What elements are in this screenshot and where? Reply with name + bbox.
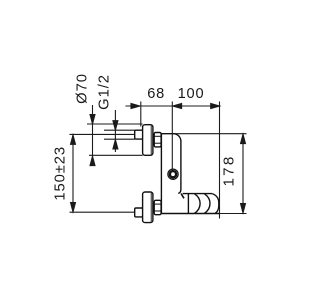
measure line Ø70 top — [87, 123, 143, 125]
arrow 178 top — [240, 134, 245, 144]
body-to-cartridge chamfer stub — [181, 194, 184, 199]
extension line 150 bottom (lower port centreline) — [70, 211, 135, 213]
lower union nut — [154, 200, 161, 214]
arrow 178 bottom — [240, 204, 245, 214]
cartridge dome seam 1 — [195, 194, 201, 214]
extension line 150 top (upper port centreline) — [70, 133, 135, 135]
upper nut facet bottom — [154, 142, 161, 144]
upper nut facet top — [154, 135, 161, 137]
measure line G1/2 bottom — [104, 138, 135, 140]
arrow Ø70 bottom — [90, 156, 95, 166]
extension line 178 top (body top edge extended) — [173, 133, 247, 135]
dimension line 68/100 — [126, 105, 221, 107]
upper wall flange Ø70 — [143, 125, 153, 156]
extension line at x=172.3 (body axis, to screw) — [171, 102, 173, 169]
svg-text:G1/2: G1/2 — [97, 74, 113, 110]
arrow 68 right / 100 left — [172, 103, 181, 108]
upper flange edge line — [150, 126, 152, 155]
svg-text:Ø70: Ø70 — [75, 73, 91, 104]
svg-text:150±23: 150±23 — [53, 146, 69, 201]
faucet body outline — [161, 134, 181, 214]
upper union nut — [154, 133, 161, 147]
extension line at x=219.5 — [219, 102, 221, 219]
dimension line 178 — [242, 134, 244, 214]
handle screw — [168, 169, 178, 179]
measure line G1/2 top — [104, 129, 135, 131]
arrow 150 bottom — [70, 202, 75, 212]
lower nut facet bottom — [154, 210, 161, 212]
extension line at x=172.3 inside body (down to screw) — [171, 134, 173, 169]
cartridge end cap — [212, 194, 219, 214]
extension line at x=140.8 — [140, 102, 142, 127]
lower wall flange Ø70 — [143, 192, 153, 223]
fixture bottom edge — [161, 213, 219, 215]
svg-text:100: 100 — [178, 86, 205, 102]
arrow 100 right — [211, 103, 220, 108]
arrow Ø70 top — [90, 114, 95, 124]
extension line 178 bottom (fixture bottom extended) — [220, 213, 247, 215]
lower nipple G1/2 — [135, 208, 143, 217]
measure line Ø70 bottom — [89, 154, 143, 156]
leader line Ø70 — [92, 105, 94, 166]
cartridge left seam — [187, 194, 189, 214]
lower nut facet top — [154, 203, 161, 205]
arrow G1/2 top — [113, 121, 118, 131]
cartridge dome seam 2 — [204, 194, 210, 214]
arrow G1/2 bottom — [113, 139, 118, 149]
arrow 68 left — [131, 103, 140, 108]
svg-text:68: 68 — [147, 86, 165, 102]
dimension line 150±23 — [72, 134, 74, 212]
arrow 150 top — [70, 135, 75, 145]
lower flange edge line — [150, 193, 152, 222]
cartridge housing top edge — [183, 193, 213, 195]
leader line G1/2 — [114, 110, 116, 152]
upper nipple G1/2 — [135, 130, 143, 139]
svg-text:178: 178 — [221, 155, 238, 187]
